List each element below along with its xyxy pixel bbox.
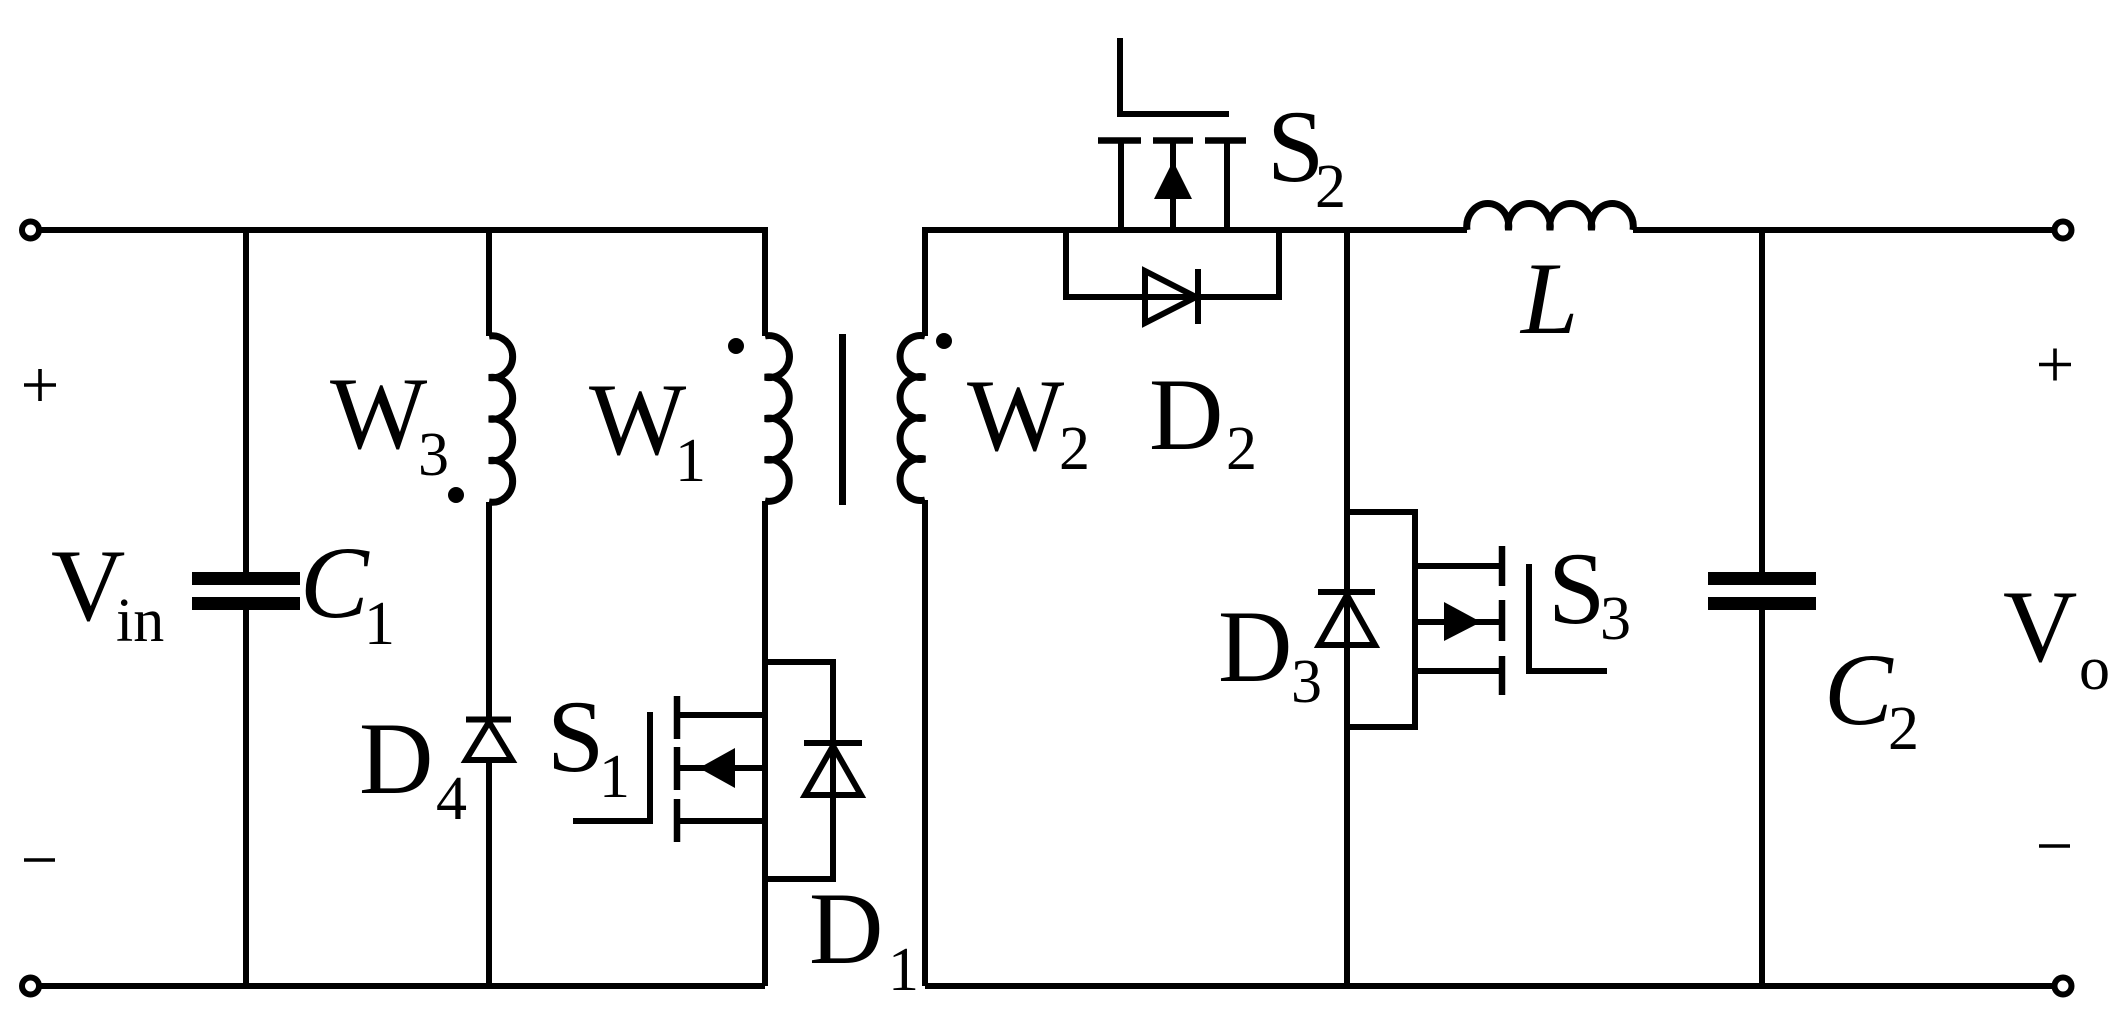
mosfet S2 drain: [1118, 143, 1124, 230]
wire C2 bottom: [1759, 610, 1765, 986]
wire bottom rail left: [39, 983, 765, 989]
wire D4 bottom: [486, 760, 492, 986]
input terminal bottom-left: [22, 978, 39, 995]
svg-text:W: W: [589, 363, 687, 477]
mosfet S3 source: [1415, 668, 1502, 674]
mosfet S1 body arrow: [677, 765, 765, 771]
svg-text:D: D: [1149, 358, 1223, 472]
svg-text:1: 1: [364, 590, 395, 658]
diode D2: [1145, 269, 1198, 324]
winding W2: [900, 335, 925, 500]
wire D1 branch: [765, 662, 833, 879]
wire W3 to D4: [486, 502, 492, 722]
output terminal top-right: [2055, 222, 2072, 239]
input terminal top-left: [22, 222, 39, 239]
mosfet S3 body arrow: [1415, 619, 1502, 625]
wire top rail right of L: [1633, 227, 2055, 233]
wire W2 top: [922, 227, 928, 336]
plus sign output: [2039, 349, 2071, 381]
minus sign input: [24, 858, 55, 862]
mosfet S1 gate: [573, 712, 650, 821]
wire D2 branch: [1066, 230, 1279, 297]
mosfet S2 source: [1224, 143, 1230, 230]
svg-text:3: 3: [418, 421, 449, 489]
node dot W1: [728, 338, 744, 354]
diode D3: [1318, 592, 1375, 645]
svg-text:S: S: [547, 680, 604, 794]
wire top rail left: [39, 227, 765, 233]
svg-text:V: V: [51, 529, 125, 643]
mosfet S2 channel: [1098, 137, 1246, 144]
capacitor C2: [1708, 572, 1816, 610]
svg-text:2: 2: [1888, 695, 1919, 763]
svg-text:C: C: [300, 526, 370, 640]
mosfet S2 body arrow: [1170, 143, 1176, 230]
svg-text:1: 1: [675, 427, 706, 495]
node dot W3: [448, 487, 464, 503]
svg-text:in: in: [116, 587, 164, 655]
wire D3 S3 branch: [1344, 230, 1350, 986]
wire bottom rail right: [925, 983, 2055, 989]
node dot W2: [936, 333, 952, 349]
wire S3 box: [1347, 512, 1415, 727]
svg-text:W: W: [330, 357, 428, 471]
wire C2 top: [1759, 227, 1765, 572]
mosfet S1 drain: [677, 712, 765, 718]
svg-text:2: 2: [1315, 153, 1346, 221]
plus sign input: [24, 369, 56, 401]
output terminal bottom-right: [2055, 978, 2072, 995]
inductor L: [1467, 203, 1634, 230]
svg-text:V: V: [2003, 570, 2077, 684]
wire W2 bottom: [922, 500, 928, 986]
svg-text:D: D: [359, 702, 433, 816]
diode D1: [804, 743, 862, 795]
svg-text:1: 1: [599, 743, 630, 811]
mosfet S3 drain: [1415, 563, 1502, 569]
wire W1 bottom: [762, 501, 768, 986]
svg-text:3: 3: [1600, 585, 1631, 653]
mosfet S3 channel: [1499, 546, 1506, 695]
svg-text:D: D: [809, 872, 883, 986]
wire W3 top: [486, 227, 492, 336]
diode D4: [466, 720, 512, 761]
mosfet S1 channel: [674, 696, 681, 842]
mosfet S3 gate: [1529, 564, 1607, 671]
svg-text:W: W: [967, 359, 1065, 473]
wire top rail right: [925, 227, 1467, 233]
svg-text:3: 3: [1291, 648, 1322, 716]
wire C1 top: [243, 227, 249, 572]
wire C1 bottom: [243, 610, 249, 986]
svg-text:C: C: [1824, 633, 1894, 747]
svg-text:D: D: [1218, 590, 1292, 704]
winding W1: [765, 336, 789, 502]
mosfet S1 source: [677, 818, 765, 824]
svg-text:4: 4: [436, 765, 467, 833]
svg-text:S: S: [1548, 532, 1605, 646]
svg-text:2: 2: [1059, 415, 1090, 483]
svg-text:1: 1: [888, 936, 919, 1004]
minus sign output: [2039, 844, 2070, 848]
svg-text:o: o: [2079, 635, 2110, 703]
wire W1 top: [762, 227, 768, 336]
mosfet S2 gate: [1120, 38, 1229, 114]
transformer core: [839, 334, 846, 505]
svg-text:2: 2: [1226, 415, 1257, 483]
capacitor C1: [192, 572, 300, 610]
winding W3: [489, 336, 513, 503]
svg-text:L: L: [1519, 242, 1578, 356]
